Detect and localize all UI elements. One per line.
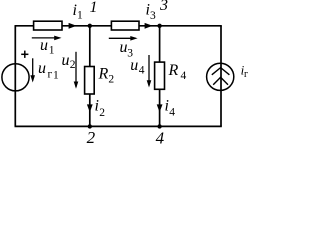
- svg-text:2: 2: [99, 107, 105, 119]
- resistor R4: [155, 62, 165, 89]
- svg-text:4: 4: [139, 65, 145, 77]
- svg-text:4: 4: [169, 106, 175, 118]
- arrow i2 on branch: [87, 104, 93, 112]
- wire through current source: [220, 63, 222, 91]
- wire bottom: [15, 125, 222, 127]
- svg-text:R: R: [98, 65, 109, 82]
- svg-text:4: 4: [156, 129, 165, 147]
- svg-text:u: u: [62, 52, 70, 69]
- wire branch node1-node2: [89, 26, 91, 127]
- resistor R2: [85, 67, 95, 95]
- wire top: [15, 25, 222, 27]
- svg-text:1: 1: [90, 0, 98, 16]
- arrow u4 (down): [147, 55, 152, 88]
- wire branch node3-node4: [159, 26, 161, 127]
- svg-text:u: u: [120, 39, 128, 56]
- svg-text:3: 3: [159, 0, 168, 14]
- svg-text:2: 2: [70, 59, 76, 71]
- svg-text:u: u: [40, 37, 48, 54]
- svg-text:1: 1: [53, 69, 59, 81]
- voltage source E (circle): [2, 64, 29, 91]
- svg-text:1: 1: [77, 10, 83, 22]
- svg-text:1: 1: [49, 44, 55, 56]
- node 2 dot: [88, 124, 92, 128]
- svg-text:u: u: [130, 57, 138, 74]
- arrow i1 on top wire: [69, 23, 77, 29]
- svg-text:г: г: [48, 68, 53, 80]
- arrow i3 on top wire: [145, 23, 153, 29]
- arrow u1: [32, 36, 62, 41]
- current source chevron upper: [212, 68, 230, 75]
- arrow u2 (down): [74, 52, 79, 89]
- svg-text:3: 3: [150, 10, 156, 22]
- arrow u3: [109, 36, 138, 41]
- arrow i4 on branch: [157, 104, 163, 112]
- svg-text:2: 2: [87, 128, 96, 146]
- wire right: [220, 26, 222, 127]
- svg-text:2: 2: [108, 74, 114, 86]
- svg-text:4: 4: [181, 70, 187, 82]
- resistor R3 (top right, unlabeled): [111, 21, 139, 30]
- svg-text:u: u: [38, 60, 46, 77]
- node 1 dot: [88, 24, 92, 28]
- svg-text:R: R: [168, 62, 179, 79]
- wire through voltage source: [14, 64, 16, 92]
- wire left: [14, 26, 16, 127]
- current source chevron lower: [213, 77, 228, 85]
- arrow u_g1 (down): [30, 58, 35, 82]
- node 3 dot: [157, 24, 161, 28]
- current source (circle): [207, 63, 234, 90]
- node 4 dot: [157, 124, 161, 128]
- plus sign: [21, 51, 28, 58]
- resistor R1 (top left, unlabeled): [34, 21, 62, 30]
- svg-text:г: г: [244, 69, 248, 80]
